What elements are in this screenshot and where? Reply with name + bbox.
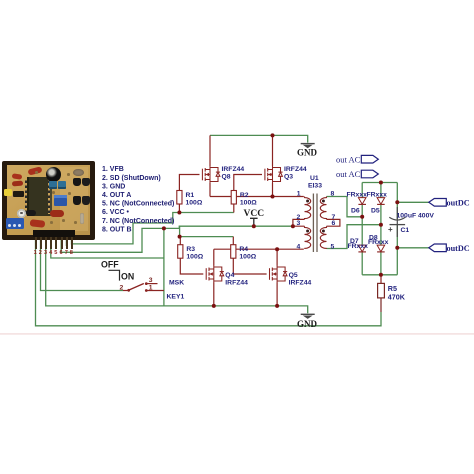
pcb pin 2 lead bbox=[40, 237, 42, 249]
wire OUT A pin4 staircase to gate rail A bbox=[51, 240, 164, 258]
svg-text:2. SD (ShutDown): 2. SD (ShutDown) bbox=[102, 175, 161, 182]
svg-text:Q8: Q8 bbox=[222, 174, 231, 181]
svg-text:6. VCC •: 6. VCC • bbox=[102, 209, 130, 216]
primary windings bbox=[305, 197, 311, 249]
red diodes left column bbox=[11, 173, 22, 179]
wire bridge left leg bbox=[361, 183, 363, 275]
svg-text:8. OUT B: 8. OUT B bbox=[102, 226, 132, 233]
svg-text:VCC: VCC bbox=[244, 209, 265, 219]
node Q3 drain / top rail bbox=[271, 133, 275, 137]
solder pads sprinkle bbox=[35, 171, 38, 174]
secondary windings bbox=[320, 197, 326, 249]
svg-text:FRxxx: FRxxx bbox=[348, 243, 369, 250]
resistor R1 bbox=[177, 191, 182, 205]
node switch feed bbox=[162, 226, 166, 230]
svg-text:FRxxx: FRxxx bbox=[347, 192, 368, 199]
wire Q8 drain bbox=[209, 135, 211, 166]
node Q3 source / pin1 bbox=[271, 195, 275, 199]
connector outDC 1 bbox=[429, 199, 447, 207]
svg-text:FRxxx: FRxxx bbox=[367, 192, 388, 199]
svg-text:FRxxx: FRxxx bbox=[368, 239, 389, 246]
svg-text:1. VFB: 1. VFB bbox=[102, 166, 124, 173]
node gate rail B bbox=[178, 235, 182, 239]
wire outDC minus tap bbox=[397, 247, 429, 249]
wire VCC pin6 staircase bbox=[61, 226, 293, 252]
wire SD pin2 to switch bbox=[41, 240, 124, 291]
svg-text:100Ω: 100Ω bbox=[186, 200, 203, 207]
svg-text:D5: D5 bbox=[371, 208, 380, 215]
svg-text:1: 1 bbox=[297, 191, 301, 198]
wire capacitor leg bbox=[396, 183, 398, 275]
svg-text:5: 5 bbox=[331, 243, 335, 250]
svg-text:ON: ON bbox=[121, 271, 134, 281]
white trimmer bbox=[17, 209, 26, 218]
pcb pin 4 lead bbox=[50, 237, 52, 249]
svg-text:Q5: Q5 bbox=[289, 272, 298, 279]
wire primary pin4 line (Q4,Q5 drains) bbox=[214, 249, 304, 265]
wire GND rail pin3 bbox=[46, 240, 308, 313]
transistor Q3 bbox=[265, 166, 283, 183]
svg-text:4. OUT A: 4. OUT A bbox=[102, 192, 131, 199]
transistor Q8 bbox=[202, 166, 220, 183]
node bridge left mid bbox=[360, 215, 364, 219]
node Q5 source / gnd rail bbox=[275, 304, 279, 308]
black part near yellow cap bbox=[13, 191, 24, 198]
svg-text:IRFZ44: IRFZ44 bbox=[284, 166, 307, 173]
wire bridge bottom rail bbox=[362, 274, 397, 276]
pin header bbox=[33, 230, 76, 237]
wire R4 top stub bbox=[232, 237, 234, 245]
wire pin5 stub bbox=[55, 240, 57, 246]
crystal bbox=[80, 213, 85, 224]
node centre tap bbox=[291, 224, 295, 228]
svg-text:R4: R4 bbox=[239, 246, 248, 253]
node outDC plus bbox=[395, 200, 399, 204]
svg-text:100Ω: 100Ω bbox=[186, 254, 203, 261]
faint page divider line bbox=[0, 333, 474, 335]
wire VFB pin1 to R5 bottom bbox=[36, 240, 382, 326]
connector out AC 1 bbox=[361, 155, 378, 163]
wire primary pin1 line (Q8,Q3 sources) bbox=[210, 183, 304, 197]
pcb pin 1 lead bbox=[35, 237, 37, 249]
diode D6 bbox=[358, 198, 366, 205]
svg-text:Q3: Q3 bbox=[284, 174, 293, 181]
svg-text:4: 4 bbox=[49, 250, 53, 256]
teal caps row bbox=[49, 181, 58, 189]
node Q5 drain / pin4 bbox=[275, 247, 279, 251]
svg-text:2: 2 bbox=[39, 250, 42, 256]
wire R3 gate lead to Q4 bbox=[180, 258, 203, 274]
connector outDC 2 bbox=[429, 244, 447, 252]
black transistor mid bbox=[26, 210, 36, 217]
svg-text:5. NC (NotConnected): 5. NC (NotConnected) bbox=[102, 201, 174, 208]
svg-text:IRFZ44: IRFZ44 bbox=[225, 280, 248, 287]
wire R4 gate lead to Q5 bbox=[233, 258, 266, 274]
svg-text:6: 6 bbox=[332, 220, 336, 227]
blue caps row bbox=[54, 195, 67, 206]
svg-text:100uF 400V: 100uF 400V bbox=[397, 213, 435, 220]
transformer core bbox=[313, 194, 317, 253]
svg-text:U1: U1 bbox=[310, 175, 319, 182]
switch position glyph OFF/ON bbox=[109, 270, 120, 280]
svg-text:7: 7 bbox=[65, 250, 68, 256]
pcb pin 7 lead bbox=[66, 237, 68, 249]
svg-text:7. NC (NotConnected): 7. NC (NotConnected) bbox=[102, 218, 174, 225]
wire transformer pin5 to bridge bbox=[327, 225, 381, 249]
svg-text:OFF: OFF bbox=[101, 259, 119, 269]
svg-text:IRFZ44: IRFZ44 bbox=[289, 280, 312, 287]
wire Q3 drain bbox=[272, 135, 274, 166]
svg-text:5: 5 bbox=[54, 250, 57, 256]
transformer U1 EI33 bbox=[305, 194, 327, 253]
svg-text:R1: R1 bbox=[186, 192, 195, 199]
winding polarity dots bbox=[306, 200, 309, 203]
node Q4 source bbox=[212, 304, 216, 308]
svg-text:GND: GND bbox=[297, 148, 318, 158]
svg-text:R3: R3 bbox=[186, 246, 195, 253]
node bridge right mid bbox=[379, 223, 383, 227]
svg-text:EI33: EI33 bbox=[308, 183, 322, 190]
svg-text:1: 1 bbox=[34, 250, 37, 256]
svg-text:+: + bbox=[388, 225, 393, 234]
node bridge top bbox=[379, 181, 383, 185]
wire primary centre tap bracket pins 2,3 bbox=[293, 219, 305, 226]
resistor R4 bbox=[231, 245, 236, 259]
wire outDC plus tap bbox=[397, 201, 429, 203]
svg-text:3: 3 bbox=[44, 250, 47, 256]
transistor Q5 bbox=[270, 266, 288, 283]
wire transformer pin8 to bridge bbox=[327, 197, 363, 217]
svg-text:470K: 470K bbox=[388, 293, 406, 302]
pcb header pins bbox=[0, 0, 1, 1]
resistor R5 bbox=[378, 283, 385, 298]
transistor Q4 bbox=[206, 266, 224, 283]
wire secondary tap bracket pins 7,6 bbox=[327, 219, 340, 226]
ground symbol GND1 bbox=[301, 144, 315, 149]
svg-text:out AC: out AC bbox=[336, 154, 361, 164]
resistor R3 bbox=[178, 245, 183, 259]
wire Q4 source bbox=[213, 283, 215, 306]
diode D7 bbox=[358, 245, 366, 252]
wire pin7 stub bbox=[65, 240, 67, 246]
pcb pin 5 lead bbox=[55, 237, 57, 249]
svg-text:IRFZ44: IRFZ44 bbox=[222, 166, 245, 173]
yellow film cap bbox=[4, 189, 12, 196]
svg-text:2: 2 bbox=[120, 285, 124, 292]
svg-text:3. GND: 3. GND bbox=[102, 183, 125, 190]
connector out AC 2 bbox=[361, 170, 378, 178]
pcb pin 3 lead bbox=[45, 237, 47, 249]
svg-text:KEY1: KEY1 bbox=[167, 294, 185, 301]
wire R5 top lead bbox=[380, 275, 382, 284]
black transistors right top bbox=[73, 178, 81, 187]
red diode centre bbox=[50, 210, 65, 217]
svg-text:C1: C1 bbox=[401, 227, 410, 234]
svg-text:GND: GND bbox=[297, 319, 318, 329]
node outDC minus bbox=[395, 246, 399, 250]
svg-text:6: 6 bbox=[60, 250, 63, 256]
wire top rail to GND1 bbox=[210, 135, 308, 142]
svg-text:8: 8 bbox=[70, 250, 73, 256]
pcb board substrate bbox=[7, 165, 91, 235]
ic U-chip bbox=[27, 177, 52, 216]
node R1 bottom bbox=[177, 211, 181, 215]
resistor R2 bbox=[231, 191, 236, 205]
wire R1 bottom stub bbox=[178, 204, 180, 213]
svg-text:3: 3 bbox=[149, 277, 153, 284]
ground symbol GND2 bbox=[301, 314, 315, 319]
wire bridge right leg bbox=[380, 183, 382, 275]
diode D8 bbox=[377, 245, 385, 252]
wire switch node vertical bbox=[163, 228, 165, 306]
wire R2 gate lead to Q3 bbox=[234, 175, 262, 191]
svg-text:outDC: outDC bbox=[447, 199, 470, 208]
svg-text:100Ω: 100Ω bbox=[240, 200, 257, 207]
black transistors right bottom bbox=[73, 196, 81, 205]
node VCC tap bbox=[252, 224, 256, 228]
red diode bottom-center bbox=[30, 219, 46, 227]
grey oval coil bbox=[73, 169, 84, 176]
electrolytic cap black round bbox=[46, 167, 61, 182]
svg-text:1: 1 bbox=[149, 285, 153, 292]
wire R3 top stub bbox=[179, 237, 181, 245]
svg-text:R2: R2 bbox=[240, 192, 249, 199]
wire R2 bottom stub bbox=[233, 204, 235, 213]
svg-text:8: 8 bbox=[331, 191, 335, 198]
capacitor C1 bbox=[388, 207, 434, 237]
svg-text:3: 3 bbox=[297, 220, 301, 227]
svg-text:4: 4 bbox=[297, 243, 301, 250]
red diode top bbox=[27, 166, 42, 175]
wire OUT B pin8 staircase to gate rail B bbox=[72, 213, 234, 244]
transformer pin numbers bbox=[297, 191, 336, 251]
switch KEY1 bbox=[120, 277, 164, 292]
wire Q5 source bbox=[276, 283, 278, 306]
svg-text:100Ω: 100Ω bbox=[239, 254, 256, 261]
svg-text:outDC: outDC bbox=[447, 244, 470, 253]
power symbol VCC bbox=[244, 209, 265, 226]
diode D5 bbox=[377, 198, 385, 205]
blue cap bank bottom-left bbox=[6, 218, 25, 229]
wire gate rail B feed elbow bbox=[180, 226, 234, 236]
pcb pin 6 lead bbox=[61, 237, 63, 249]
wire R1 gate lead to Q8 bbox=[179, 175, 199, 191]
svg-text:out AC: out AC bbox=[336, 169, 361, 179]
svg-text:D6: D6 bbox=[351, 208, 360, 215]
svg-text:Q4: Q4 bbox=[225, 272, 234, 279]
pcb pin 8 lead bbox=[71, 237, 73, 249]
node bridge bottom / R5 bbox=[379, 273, 383, 277]
svg-text:MSK: MSK bbox=[169, 280, 184, 287]
wire bridge top rail bbox=[362, 182, 397, 184]
